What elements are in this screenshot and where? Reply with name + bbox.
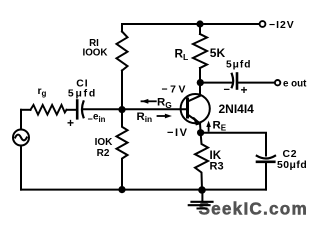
wire top rail [122, 23, 258, 25]
svg-text:RL: RL [175, 47, 189, 63]
resistor rg [31, 105, 67, 115]
svg-text:+: + [67, 116, 74, 130]
wire R1 branch top [121, 24, 123, 32]
node emitter junction [197, 129, 204, 136]
svg-text:50μfd: 50μfd [277, 160, 307, 171]
wire RL bottom to collector node [199, 68, 201, 83]
svg-text:SeekIC.com: SeekIC.com [199, 199, 308, 219]
node collector junction [197, 79, 204, 86]
arrow RG [146, 100, 156, 102]
wire output cap to e out [238, 82, 274, 84]
wire bottom rail [21, 189, 266, 191]
svg-text:IOOK: IOOK [82, 48, 107, 59]
svg-text:R2: R2 [97, 148, 110, 159]
svg-text:5K: 5K [210, 46, 226, 60]
svg-text:C2: C2 [283, 149, 298, 160]
svg-text:Rin: Rin [137, 111, 153, 124]
svg-text:5μfd: 5μfd [226, 59, 252, 70]
wire RL branch top [199, 24, 201, 34]
svg-text:−: − [88, 114, 93, 124]
generator AC source [13, 130, 29, 146]
wire rg to C1 [67, 109, 77, 111]
svg-text:2NI4I4: 2NI4I4 [219, 102, 255, 116]
svg-text:5μfd: 5μfd [68, 88, 97, 99]
resistor R3 [195, 133, 208, 190]
svg-text:−7V: −7V [162, 85, 189, 96]
node top rail junction [196, 20, 203, 27]
ground [189, 190, 213, 209]
terminal e out [275, 80, 280, 85]
wire input rail left [21, 109, 31, 111]
wire collector node to output cap [200, 82, 231, 84]
resistor RL [193, 34, 207, 68]
capacitor output 5ufd [232, 74, 237, 89]
svg-text:e out: e out [283, 79, 307, 90]
svg-text:RG: RG [157, 97, 172, 110]
resistor R2 [117, 110, 128, 190]
wire source branch upper [20, 110, 22, 130]
svg-text:rg: rg [38, 86, 47, 98]
svg-text:ein: ein [93, 112, 106, 124]
wire C1 to base [83, 108, 187, 110]
node R2 bottom junction [118, 186, 125, 193]
terminal -12V [260, 21, 266, 27]
capacitor C1 [77, 101, 83, 119]
svg-text:−I2V: −I2V [269, 20, 295, 31]
svg-text:RE: RE [213, 120, 227, 133]
wire R1 bottom [121, 71, 123, 110]
wire C2 bottom [265, 163, 267, 190]
svg-text:−IV: −IV [167, 127, 189, 139]
node R3 bottom junction [198, 186, 206, 194]
arrow RE [208, 125, 210, 131]
capacitor C2 [257, 156, 275, 162]
svg-text:−: − [224, 84, 230, 96]
svg-text:+: + [241, 83, 248, 97]
wire source branch lower [20, 146, 22, 190]
svg-text:IOK: IOK [95, 137, 114, 148]
wire emitter rail [201, 133, 266, 156]
node base-divider junction [118, 106, 125, 113]
svg-text:R3: R3 [210, 161, 224, 173]
resistor R1 [117, 32, 128, 71]
arrow Rin [158, 115, 166, 117]
transistor Q1 2N1414 [181, 83, 210, 133]
